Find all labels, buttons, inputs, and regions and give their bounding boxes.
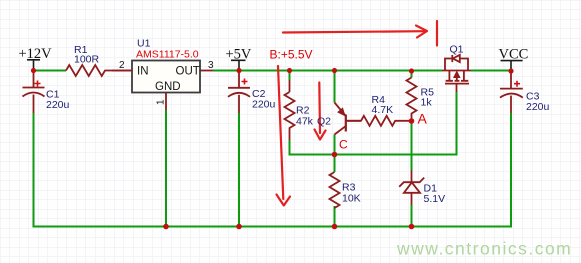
svg-text:3: 3 <box>208 60 214 71</box>
svg-text:C: C <box>339 138 348 152</box>
svg-text:GND: GND <box>155 81 181 93</box>
svg-text:www.cntronics.com: www.cntronics.com <box>396 239 572 259</box>
svg-text:10K: 10K <box>342 193 361 205</box>
svg-text:IN: IN <box>137 66 149 78</box>
svg-text:AMS1117-5.0: AMS1117-5.0 <box>136 49 199 61</box>
svg-text:220u: 220u <box>526 101 550 113</box>
svg-text:220u: 220u <box>252 99 276 111</box>
svg-text:47k: 47k <box>296 116 314 128</box>
svg-text:A: A <box>418 111 428 127</box>
svg-text:VCC: VCC <box>499 47 529 63</box>
svg-text:100R: 100R <box>74 54 100 66</box>
svg-text:1k: 1k <box>421 97 433 109</box>
svg-text:Q1: Q1 <box>450 44 464 56</box>
svg-text:220u: 220u <box>46 99 70 111</box>
svg-text:OUT: OUT <box>176 66 200 78</box>
svg-text:+12V: +12V <box>19 46 53 62</box>
svg-text:5.1V: 5.1V <box>424 193 446 205</box>
svg-text:4.7K: 4.7K <box>372 104 394 116</box>
svg-text:B:+5.5V: B:+5.5V <box>270 48 313 62</box>
svg-text:2: 2 <box>119 60 125 71</box>
svg-text:Q2: Q2 <box>317 116 331 128</box>
svg-text:1: 1 <box>156 99 167 105</box>
svg-text:+5V: +5V <box>226 47 252 63</box>
